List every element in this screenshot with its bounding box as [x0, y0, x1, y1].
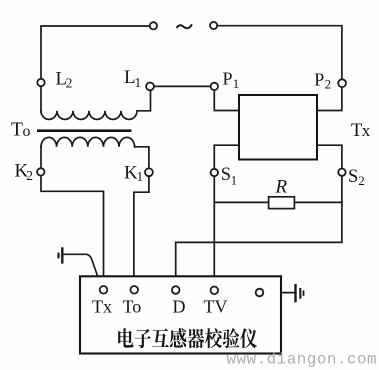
terminal P2	[338, 79, 346, 87]
calibrator terminal D	[172, 286, 180, 294]
calibrator spare terminal (right, to earth)	[256, 289, 264, 297]
terminal L2	[37, 79, 44, 86]
svg-text:TV: TV	[204, 297, 228, 317]
svg-text:2: 2	[325, 77, 332, 92]
calibrator terminal Tx	[100, 286, 108, 294]
calibrator box 电子互感器校验仪	[80, 276, 281, 353]
svg-text:www.diangon.com: www.diangon.com	[227, 351, 378, 369]
wire: Tx box lower-left to S1, down through S1 to TV terminal	[214, 145, 239, 290]
svg-text:1: 1	[137, 169, 144, 184]
svg-text:S: S	[221, 165, 231, 185]
svg-text:o: o	[23, 123, 31, 140]
AC source terminal left	[150, 22, 157, 29]
wire: L1 to P1 horizontal	[151, 85, 215, 87]
svg-text:P: P	[314, 69, 324, 89]
wire: P1 down and right into Tx box	[214, 86, 239, 110]
svg-text:R: R	[275, 177, 288, 198]
calibrator terminal TV	[211, 287, 219, 295]
svg-text:1: 1	[135, 75, 142, 90]
svg-text:S: S	[348, 167, 358, 187]
svg-text:Tx: Tx	[92, 297, 112, 317]
terminal K1	[145, 168, 153, 176]
terminal K2	[37, 168, 44, 175]
svg-text:x: x	[362, 121, 371, 140]
terminal L1	[146, 83, 154, 91]
svg-text:1: 1	[233, 76, 240, 91]
inductor L winding (top coil of To transformer)	[41, 111, 137, 120]
wire: Tx box lower-right to S2, down to D-line, left and down to D terminal	[176, 145, 342, 290]
svg-text:P: P	[223, 69, 233, 89]
wire: right earth lead from spare terminal	[263, 292, 294, 294]
svg-text:D: D	[173, 297, 186, 317]
svg-text:T: T	[351, 121, 362, 141]
calibrator terminal To	[130, 286, 138, 294]
svg-text:1: 1	[231, 173, 238, 188]
AC source terminal right	[210, 22, 217, 29]
svg-text:2: 2	[66, 76, 73, 91]
wire: left earth lead, bends diagonally down to Tx terminal	[63, 254, 101, 286]
svg-text:2: 2	[358, 173, 365, 188]
wire: K2 down, right, down to Tx terminal of calibrator	[41, 172, 104, 290]
wire: top-right horizontal from AC terminal, down right side to P2	[214, 26, 342, 111]
wire: bottom coil right end to K1 terminal	[135, 147, 149, 172]
terminal S1	[211, 169, 218, 176]
svg-text:To: To	[123, 297, 142, 317]
inductor K winding (bottom coil of To transformer)	[41, 137, 135, 146]
wire: top coil right end up to L1 terminal	[137, 86, 151, 110]
wire: resistor branch S1 to S2	[214, 201, 342, 203]
AC source symbol ~	[177, 24, 192, 28]
wire: K1 down, left, down to To terminal of calibrator	[134, 172, 149, 290]
terminal P1	[211, 83, 218, 90]
ground symbol (left earth)	[59, 247, 63, 263]
terminal S2	[338, 169, 345, 176]
wire: K2 side vertical through coil left end	[40, 147, 42, 172]
svg-text:T: T	[11, 120, 23, 141]
transformer core (To)	[37, 129, 132, 132]
resistor R body	[269, 197, 295, 209]
label: Chinese text 电子互感器校验仪	[118, 328, 257, 348]
svg-text:2: 2	[26, 168, 33, 183]
transformer Tx (box)	[239, 95, 317, 160]
wire: top-left loop (left vertical + top horizontal to AC terminal)	[41, 26, 150, 113]
ground symbol (right earth)	[296, 284, 304, 303]
